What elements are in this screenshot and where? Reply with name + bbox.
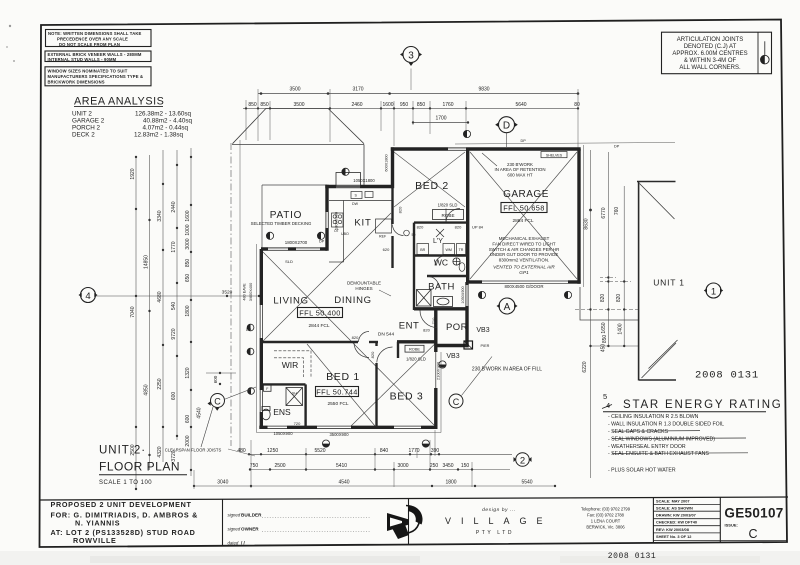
svg-text:2500: 2500 (274, 463, 285, 469)
svg-text:FFL 50.658: FFL 50.658 (503, 203, 545, 212)
svg-text:FFL 50.400: FFL 50.400 (299, 308, 341, 317)
thin setback line (239, 140, 241, 452)
svg-text:ENS: ENS (273, 407, 291, 417)
svg-text:BED 3: BED 3 (390, 391, 424, 403)
unit1 apron line (580, 287, 639, 320)
svg-text:PIER: PIER (481, 344, 490, 348)
svg-text:840: 840 (380, 448, 389, 454)
shelves box garage (541, 152, 567, 158)
dash-dot boundary line (230, 143, 232, 446)
svg-text:820: 820 (398, 206, 403, 213)
clearspan floor joists label (165, 448, 255, 457)
FFL 50.400 box (298, 308, 343, 330)
svg-text:3: 3 (408, 51, 414, 62)
svg-text:80: 80 (574, 102, 580, 108)
svg-text:VILLAGE: VILLAGE (445, 516, 553, 526)
svg-text:SWITCH & AIR CHANGES PER HR: SWITCH & AIR CHANGES PER HR (489, 247, 560, 252)
unit 1 outline (637, 181, 676, 381)
ens fixtures (262, 385, 303, 420)
svg-text:- SEAL WINDOWS (ALUMINIUM IMPR: - SEAL WINDOWS (ALUMINIUM IMPROVED) (608, 436, 715, 442)
wall: bath south (414, 307, 467, 310)
energy rating list (608, 414, 724, 473)
grid bubble D (495, 117, 518, 147)
svg-text:BUILDER: BUILDER (241, 513, 262, 518)
svg-text:3500: 3500 (293, 102, 304, 108)
pier box porch (464, 341, 490, 349)
svg-text:1400: 1400 (618, 323, 624, 334)
svg-text:Telephone: (03) 9702 2799: Telephone: (03) 9702 2799 (581, 507, 631, 512)
svg-text:DW: DW (352, 202, 359, 206)
svg-text:ALL WALL CORNERS.: ALL WALL CORNERS. (679, 65, 741, 71)
wall: porch south (437, 344, 469, 347)
window markers (half-filled circles) (247, 168, 572, 447)
svg-text:- CEILING INSULATION R 2.5 BLO: - CEILING INSULATION R 2.5 BLOWN (608, 414, 699, 420)
svg-text:DECK 2: DECK 2 (72, 132, 95, 139)
bed2 cross diagonals (394, 152, 465, 207)
svg-text:820: 820 (370, 351, 375, 358)
articulation joint symbol (764, 41, 766, 55)
svg-text:480 EAVE: 480 EAVE (243, 283, 247, 301)
svg-text:230 B'WORK IN AREA OF FILL: 230 B'WORK IN AREA OF FILL (472, 367, 542, 373)
wall: bed2 west jog (391, 147, 394, 188)
svg-text:1250: 1250 (267, 448, 278, 454)
svg-text:850: 850 (417, 102, 426, 108)
svg-text:3000: 3000 (185, 238, 191, 249)
left dimension columns (96, 148, 260, 489)
wir shelves dashed (274, 351, 311, 377)
svg-text:6220: 6220 (582, 361, 588, 372)
wall: south (bottom) (259, 426, 436, 429)
scale table (653, 504, 786, 540)
wall: garage south (with door opening) (568, 280, 581, 283)
door arcs (354, 209, 460, 363)
wc door (435, 256, 445, 266)
svg-text:5: 5 (603, 392, 607, 401)
svg-text:ROWVILLE: ROWVILLE (73, 536, 117, 545)
wall: ens east (304, 384, 306, 427)
svg-text:ROBE: ROBE (409, 347, 420, 352)
bath door (428, 277, 439, 288)
grid bubble 2 (514, 453, 532, 467)
patio roof outline (232, 108, 364, 186)
svg-text:UNIT 2: UNIT 2 (72, 111, 92, 118)
svg-text:9830: 9830 (478, 86, 489, 92)
svg-text:PRECEDENCE OVER ANY SCALE: PRECEDENCE OVER ANY SCALE (57, 37, 128, 42)
svg-text:WINDOW SIZES NOMINATED TO SUIT: WINDOW SIZES NOMINATED TO SUIT (48, 69, 128, 74)
top dimension row 2 (243, 108, 578, 122)
wall: west (left) (260, 249, 263, 427)
svg-text:4.07m2 - 0.44sq: 4.07m2 - 0.44sq (142, 125, 188, 132)
svg-text:VENTED TO EXTERNAL AIR: VENTED TO EXTERNAL AIR (493, 265, 555, 270)
O50 symbol (404, 230, 416, 237)
svg-text:820: 820 (455, 224, 462, 229)
kitchen counters (329, 192, 392, 263)
svg-text:FOR: G. DIMITRIADIS, D. AMBROS: FOR: G. DIMITRIADIS, D. AMBROS & (51, 511, 199, 520)
left dim rotated labels (130, 168, 191, 461)
svg-text:1600: 1600 (185, 210, 191, 221)
svg-text:- SEAL ENSUITE & BATH EXHAUST: - SEAL ENSUITE & BATH EXHAUST FANS (608, 451, 709, 457)
svg-text:UBO: UBO (341, 232, 349, 236)
svg-text:800X4500 G/DOOR: 800X4500 G/DOOR (504, 284, 543, 289)
svg-text:GARAGE: GARAGE (503, 189, 549, 200)
svg-text:PROPOSED 2 UNIT DEVELOPMENT: PROPOSED 2 UNIT DEVELOPMENT (51, 500, 192, 509)
strikethrough marks (612, 431, 748, 454)
svg-text:250: 250 (430, 463, 439, 469)
bath fixtures (417, 290, 453, 307)
wall: kit east lower (391, 236, 393, 268)
svg-text:820: 820 (352, 335, 359, 340)
svg-text:BED 2: BED 2 (415, 180, 449, 192)
wall: hall/laundry west (413, 223, 415, 310)
svg-text:9720: 9720 (171, 328, 177, 339)
svg-text:A: A (504, 302, 511, 313)
robe bed3 (405, 345, 426, 361)
svg-text:760: 760 (614, 207, 620, 216)
svg-text:dated: dated (228, 541, 239, 546)
bed2 door (446, 209, 460, 223)
wall: living north (patio) (261, 247, 327, 250)
svg-text:1/820 SLD: 1/820 SLD (406, 356, 426, 361)
window thin segments in exterior walls (261, 149, 467, 427)
svg-text:LIVING: LIVING (273, 295, 308, 306)
svg-text:APPROX. 6.00M CENTRES: APPROX. 6.00M CENTRES (672, 51, 747, 57)
svg-text:MANUFACTURERS SPECIFICATIONS T: MANUFACTURERS SPECIFICATIONS TYPE & (48, 74, 144, 79)
unit 1 roof hips (640, 184, 678, 379)
svg-text:- WEATHERSEAL ENTRY DOOR: - WEATHERSEAL ENTRY DOOR (608, 444, 686, 450)
svg-text:KIT: KIT (354, 218, 371, 229)
door labels (352, 206, 484, 358)
svg-text:NOTE: WRITTEN DIMENSIONS SHALL: NOTE: WRITTEN DIMENSIONS SHALL TAKE (48, 31, 142, 36)
window marker above bed2 wall (463, 130, 470, 137)
svg-text:signed: signed (228, 527, 241, 532)
wc pan (453, 258, 465, 271)
svg-text:40.88m2 - 4.40sq: 40.88m2 - 4.40sq (143, 118, 193, 125)
svg-text:1800X600: 1800X600 (334, 211, 339, 230)
svg-text:DRAWN: KW 20/03/07: DRAWN: KW 20/03/07 (656, 513, 696, 518)
svg-text:4540: 4540 (338, 480, 349, 486)
svg-text:FAN DIRECT WIRED TO LIGHT: FAN DIRECT WIRED TO LIGHT (492, 241, 556, 246)
svg-text:2884 FCL: 2884 FCL (512, 218, 533, 224)
svg-text:- PLUS SOLAR HOT WATER: - PLUS SOLAR HOT WATER (608, 468, 676, 474)
svg-text:820: 820 (423, 328, 430, 333)
svg-text:2: 2 (520, 455, 525, 466)
svg-text:GARAGE 2: GARAGE 2 (72, 118, 105, 125)
wall: bed1/bed3 (375, 342, 377, 346)
svg-text:600: 600 (171, 392, 177, 401)
FFL 50.744 box (316, 387, 359, 407)
wall: kitchen west (325, 185, 328, 251)
svg-text:DP: DP (521, 139, 527, 143)
svg-text:8630: 8630 (584, 218, 590, 229)
top dimension row 1 (258, 93, 578, 95)
living opening arc (359, 332, 370, 343)
bottom dim labels (217, 448, 533, 486)
svg-text:PORCH 2: PORCH 2 (72, 125, 100, 132)
svg-text:5520: 5520 (314, 448, 325, 454)
bottom dimension row 1 (194, 454, 555, 486)
svg-text:2440: 2440 (171, 201, 177, 212)
svg-text:UNDER GUT DOOR TO PROVIDE: UNDER GUT DOOR TO PROVIDE (490, 252, 559, 257)
svg-text:126.38m2 - 13.60sq: 126.38m2 - 13.60sq (135, 111, 192, 118)
svg-text:REV: KW 20/03/08: REV: KW 20/03/08 (656, 527, 690, 532)
svg-text:6770: 6770 (601, 207, 607, 218)
robe bed2 (433, 203, 464, 220)
grid bubble 3 (400, 47, 422, 67)
svg-text:1650: 1650 (601, 322, 607, 333)
wall: bed2+garage north (391, 147, 581, 150)
svg-text:1800: 1800 (185, 305, 191, 316)
svg-text:WIR: WIR (282, 360, 299, 370)
svg-text:BR: BR (420, 248, 425, 252)
entry door (420, 311, 437, 328)
stove burners (333, 215, 342, 224)
grid bubble 1 (704, 283, 723, 298)
address block (581, 507, 631, 530)
svg-text:3500X900: 3500X900 (329, 432, 349, 437)
svg-text:BED 1: BED 1 (326, 371, 360, 383)
laundry cross (436, 229, 444, 237)
svg-text:14850: 14850 (144, 255, 150, 269)
area analysis heading (74, 96, 164, 108)
svg-text:600: 600 (185, 415, 191, 424)
svg-text:MECHANICAL EXHAUST: MECHANICAL EXHAUST (499, 236, 550, 241)
svg-text:F: F (266, 387, 268, 391)
svg-text:1050X900: 1050X900 (461, 286, 465, 303)
svg-text:1600: 1600 (382, 102, 393, 108)
svg-text:REF: REF (379, 235, 387, 239)
svg-text:2000: 2000 (185, 435, 191, 446)
svg-text:3170: 3170 (352, 86, 363, 92)
svg-text:FFL 50.744: FFL 50.744 (316, 387, 358, 396)
svg-text:1050X1800: 1050X1800 (353, 178, 375, 183)
svg-text:- WALL INSULATION R 1.3 DOUBLE: - WALL INSULATION R 1.3 DOUBLE SIDED FOI… (608, 422, 724, 428)
svg-text:12.83m2 - 1.38sq: 12.83m2 - 1.38sq (134, 132, 184, 139)
svg-text:1000: 1000 (185, 224, 191, 235)
laundry fixtures (417, 244, 466, 255)
grid bubble 4 (79, 288, 98, 303)
svg-text:GP1: GP1 (519, 270, 529, 275)
svg-text:SLD: SLD (285, 259, 293, 264)
mechanical exhaust note (489, 236, 560, 263)
wall: hall north (414, 221, 467, 223)
svg-text:5410: 5410 (336, 463, 347, 469)
area analysis table (72, 111, 192, 139)
svg-text:GE50107: GE50107 (724, 506, 783, 521)
svg-text:- SEAL GAPS & CRACKS: - SEAL GAPS & CRACKS (608, 429, 669, 435)
svg-text:C: C (214, 396, 221, 406)
svg-text:OWNER: OWNER (241, 527, 259, 532)
svg-text:2550 FCL: 2550 FCL (327, 401, 348, 407)
wall: bed3 north (397, 340, 438, 343)
eave lines (257, 143, 676, 433)
svg-text:DEMOUNTABLE: DEMOUNTABLE (347, 281, 381, 286)
svg-text:SHEET No. 3 OF 12: SHEET No. 3 OF 12 (656, 534, 692, 539)
svg-text:850: 850 (602, 335, 608, 344)
svg-text:3040: 3040 (217, 480, 228, 486)
svg-text:PATIO: PATIO (270, 210, 303, 221)
svg-text:2100X900: 2100X900 (436, 361, 441, 380)
svg-text:SCALE 1 TO 100: SCALE 1 TO 100 (99, 480, 152, 486)
svg-text:DP: DP (319, 240, 325, 244)
svg-text:1800: 1800 (445, 480, 456, 486)
wall: wir/ens (261, 383, 306, 385)
svg-text:2844 FCL: 2844 FCL (308, 323, 329, 329)
svg-text:CLEARSPAN FLOOR JOISTS: CLEARSPAN FLOOR JOISTS (165, 448, 222, 453)
svg-text:SCALE: AS SHOWN: SCALE: AS SHOWN (656, 506, 693, 511)
svg-text:600 MAX HT: 600 MAX HT (507, 172, 532, 177)
garage retention note (495, 162, 546, 177)
svg-text:SCALE: MAY 2007: SCALE: MAY 2007 (656, 499, 690, 504)
svg-text:POR: POR (446, 322, 468, 333)
grid bubble C left (201, 387, 256, 447)
wall: bed3/por east (434, 310, 437, 352)
svg-text:AREA ANALYSIS: AREA ANALYSIS (74, 96, 164, 108)
FFL 50.658 box (501, 203, 547, 224)
wall: living/bed1 (261, 341, 358, 343)
right dimension column (575, 150, 638, 478)
svg-text:1 LENA COURT: 1 LENA COURT (591, 519, 621, 524)
wall: house east / garage west (466, 149, 469, 282)
wall: garage east (577, 149, 580, 284)
svg-text:1770: 1770 (171, 241, 177, 252)
svg-text:DINING: DINING (334, 295, 371, 306)
svg-text:3340: 3340 (157, 210, 163, 221)
svg-text:3000: 3000 (397, 463, 408, 469)
patio deck edge (262, 185, 327, 248)
svg-text:DN 544: DN 544 (378, 332, 395, 338)
svg-text:& WITHIN 3-4M OF: & WITHIN 3-4M OF (684, 58, 737, 64)
svg-text:820: 820 (417, 224, 424, 229)
svg-text:820: 820 (616, 294, 622, 303)
project description block (51, 500, 199, 545)
svg-text:BERWICK, Vic. 3806: BERWICK, Vic. 3806 (586, 525, 625, 530)
svg-text:Fax: (03) 9702 2788: Fax: (03) 9702 2788 (587, 513, 625, 518)
600 mini dim (206, 372, 236, 385)
svg-text:DENOTED (C.J) AT: DENOTED (C.J) AT (684, 44, 737, 50)
svg-text:1770: 1770 (408, 448, 419, 454)
svg-text:UNIT 2·: UNIT 2· (99, 445, 146, 457)
bed3 door (377, 347, 393, 363)
svg-text:7040: 7040 (130, 306, 136, 317)
note box 3 (45, 67, 151, 86)
svg-text:5640: 5640 (515, 102, 526, 108)
svg-text:850: 850 (260, 102, 269, 108)
wall: kitchen north (325, 185, 392, 188)
svg-text:600: 600 (213, 375, 218, 383)
svg-text:1/820 SLD: 1/820 SLD (438, 203, 458, 208)
svg-text:ARTICULATION JOINTS: ARTICULATION JOINTS (677, 37, 743, 43)
note box 2 (45, 51, 151, 62)
svg-text:STAR ENERGY RATING: STAR ENERGY RATING (623, 399, 783, 411)
village logo (387, 505, 423, 539)
svg-text:650: 650 (185, 274, 191, 283)
svg-text:540: 540 (171, 302, 177, 311)
svg-text:3450: 3450 (442, 463, 453, 469)
note box 1 (46, 30, 152, 48)
svg-text:CHECKED: KW DFT40: CHECKED: KW DFT40 (656, 520, 697, 525)
svg-text:L'Y: L'Y (433, 238, 443, 245)
svg-text:850: 850 (248, 102, 257, 108)
svg-text:1320: 1320 (185, 367, 191, 378)
svg-text:N. YIANNIS: N. YIANNIS (75, 519, 120, 528)
svg-text:3/600X400: 3/600X400 (249, 283, 253, 301)
svg-text:1920: 1920 (130, 168, 136, 179)
svg-text:SHELVES: SHELVES (546, 153, 563, 157)
svg-text:5540: 5540 (521, 480, 532, 486)
svg-text:DO NOT SCALE FROM PLAN: DO NOT SCALE FROM PLAN (59, 42, 120, 47)
svg-text:WM: WM (446, 248, 452, 252)
svg-text:UP 84: UP 84 (472, 224, 484, 229)
articulation joints note box (662, 32, 772, 73)
svg-text:710: 710 (431, 317, 436, 324)
svg-text:620: 620 (383, 247, 390, 252)
svg-text:UNIT 1: UNIT 1 (653, 278, 685, 288)
grid bubble C right (449, 394, 463, 408)
svg-text:4540: 4540 (197, 407, 203, 418)
svg-text:820: 820 (600, 294, 606, 303)
svg-text:2250: 2250 (157, 378, 163, 389)
svg-text:FLOOR PLAN: FLOOR PLAN (99, 460, 180, 474)
svg-text:4680: 4680 (157, 291, 163, 302)
grid bubble A (497, 298, 518, 314)
svg-text:C: C (453, 397, 460, 407)
wall: bed3 nw jog (397, 342, 399, 358)
svg-text:2008 0131: 2008 0131 (608, 552, 657, 561)
svg-text:INTERNAL STUD WALLS - 90MM: INTERNAL STUD WALLS - 90MM (48, 57, 117, 62)
svg-text:4850: 4850 (144, 384, 150, 395)
wall: kit/bed2 (391, 187, 393, 225)
svg-text:signed: signed (228, 513, 241, 518)
svg-text:450: 450 (601, 344, 607, 353)
wall: laundry south (414, 254, 467, 256)
svg-text:DP: DP (614, 145, 620, 149)
kitchen bay window (336, 173, 361, 187)
exterior walls (259, 147, 580, 429)
title strip top line (40, 497, 788, 500)
top dim extension lines (246, 69, 578, 149)
bed1 door (354, 343, 369, 358)
title strip dividers (223, 497, 721, 546)
svg-text:SELECTED TIMBER DECKING: SELECTED TIMBER DECKING (251, 221, 312, 226)
bottom dim extension lines (194, 430, 472, 489)
svg-text:950: 950 (400, 102, 409, 108)
long joist diagonals (263, 213, 436, 426)
svg-text:ISSUE:: ISSUE: (725, 523, 738, 528)
svg-text:1800X2700: 1800X2700 (285, 240, 308, 245)
svg-text:WC: WC (434, 258, 448, 268)
svg-text:VB3: VB3 (476, 327, 489, 334)
svg-text:D: D (503, 121, 510, 132)
svg-text:TR: TR (459, 248, 464, 252)
svg-text:BRICKWORK DIMENSIONS: BRICKWORK DIMENSIONS (48, 80, 105, 85)
svg-text:2460: 2460 (351, 102, 362, 108)
signed column (228, 513, 371, 546)
svg-text:3500: 3500 (289, 86, 300, 92)
svg-text:50: 50 (412, 233, 416, 237)
svg-text:720: 720 (294, 421, 301, 426)
svg-text:VB3: VB3 (446, 353, 459, 360)
svg-text:1: 1 (711, 287, 716, 298)
svg-text:C: C (748, 527, 757, 541)
svg-text:8300mm2 VENTILATION.: 8300mm2 VENTILATION. (499, 258, 549, 263)
wall: wc/bath (427, 275, 467, 277)
svg-text:1760: 1760 (442, 102, 453, 108)
kitchen opening door (393, 225, 404, 236)
svg-text:design by ...: design by ... (482, 507, 516, 513)
svg-text:2008 0131: 2008 0131 (695, 370, 759, 382)
svg-text:1050X900: 1050X900 (273, 431, 293, 436)
svg-text:600X1800: 600X1800 (385, 154, 389, 171)
